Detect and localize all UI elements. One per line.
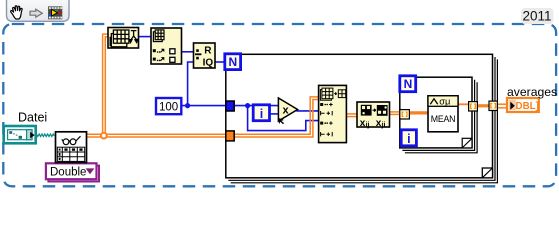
svg-text:Double: Double bbox=[50, 167, 86, 179]
svg-text:x: x bbox=[282, 105, 289, 117]
svg-text:R: R bbox=[204, 46, 212, 57]
svg-text:averages: averages bbox=[507, 85, 557, 99]
svg-text:2011: 2011 bbox=[522, 9, 551, 24]
svg-text:100: 100 bbox=[159, 101, 178, 113]
svg-text:N: N bbox=[228, 55, 237, 69]
svg-text:σμ: σμ bbox=[439, 97, 450, 107]
svg-text:ji: ji bbox=[381, 122, 386, 129]
svg-text:Datei: Datei bbox=[18, 111, 47, 125]
svg-text:i: i bbox=[407, 132, 410, 146]
svg-text:MEAN: MEAN bbox=[431, 114, 456, 124]
svg-text:N: N bbox=[404, 77, 413, 91]
svg-text:IQ: IQ bbox=[203, 57, 214, 68]
svg-text:ij: ij bbox=[366, 122, 370, 129]
svg-text:i: i bbox=[260, 107, 263, 121]
svg-text:DBL]: DBL] bbox=[516, 101, 539, 112]
